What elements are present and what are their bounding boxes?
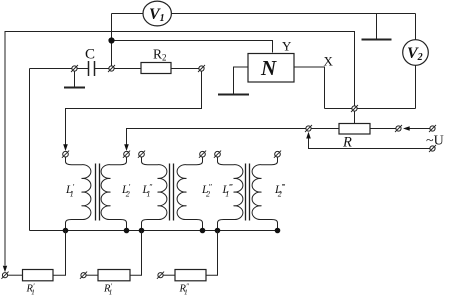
wire riser R1'' (130, 231, 142, 276)
svg-text:L‴1: L‴1 (222, 183, 233, 199)
wire V2 bottom lead (415, 65, 417, 109)
wire top bus to V1 left (112, 13, 144, 15)
potentiometer R (339, 124, 370, 135)
node junction dot (108, 37, 114, 43)
svg-text:C: C (85, 47, 95, 63)
resistor R1'' (98, 270, 130, 281)
node dots on bottom bus (63, 228, 281, 234)
coil L1' (66, 157, 91, 231)
svg-text:R′1: R′1 (26, 282, 35, 297)
terminal wiper junction (351, 105, 358, 112)
terminal R1''' left (157, 272, 164, 279)
wire V2 top lead (415, 14, 417, 41)
coil L2''' (252, 157, 277, 231)
svg-text:L″2: L″2 (201, 183, 212, 199)
arrow from ~U top (403, 126, 430, 131)
wire R left to transformer 2 terminal (127, 129, 340, 145)
terminal circles with slashes (1, 65, 436, 279)
terminal R1'' left (80, 272, 87, 279)
wire capacitor to R2 (95, 68, 142, 70)
svg-text:L‴2: L‴2 (274, 183, 285, 199)
arrow down to R1' (left edge) (3, 266, 7, 273)
wire wiper (354, 111, 356, 124)
capacitor C (89, 61, 95, 76)
wire R1' left lead (8, 274, 23, 276)
terminal capacitor right (108, 65, 115, 72)
wire ~U bottom return (309, 139, 430, 149)
terminal L2''' top (274, 151, 281, 158)
core T1 (96, 164, 100, 221)
svg-text:R: R (342, 135, 352, 151)
resistor R2 (141, 63, 171, 74)
terminal R left (305, 125, 312, 132)
wire capacitor branch down to bottom bus (29, 69, 31, 231)
terminal L2'' top (199, 151, 206, 158)
svg-text:L′1: L′1 (65, 183, 74, 199)
voltmeter V1 (143, 1, 171, 26)
svg-text:~U: ~U (426, 134, 444, 149)
wire riser R1''' (206, 231, 218, 276)
wire R right (370, 128, 397, 130)
wire R1'' left lead (86, 274, 98, 276)
core T2 (170, 164, 174, 221)
resistor R1' (23, 270, 54, 281)
svg-text:N: N (260, 56, 277, 80)
wire capacitor feed vertical (111, 14, 113, 69)
terminal L1''' top (214, 151, 221, 158)
svg-text:X: X (324, 54, 334, 69)
wire wiper junction to V2 (325, 108, 416, 110)
svg-text:Y: Y (282, 39, 292, 54)
coil L2'' (177, 157, 202, 231)
terminal L2' top (123, 151, 130, 158)
arrow to terminal L2' (124, 144, 129, 151)
voltmeter V2 (403, 40, 429, 66)
terminal L1'' top (138, 151, 145, 158)
svg-text:R′1: R′1 (103, 282, 112, 297)
wire R2 right (171, 68, 199, 70)
svg-text:R″1: R″1 (179, 282, 190, 297)
wire Y net (112, 41, 273, 53)
terminal L1' top (62, 151, 69, 158)
ground at N (218, 94, 249, 96)
terminal R2 right (198, 65, 205, 72)
terminal ~U bottom (429, 145, 436, 152)
coil L1''' (218, 157, 243, 231)
terminal capacitor left (71, 65, 78, 72)
arrow up to R left terminal (306, 132, 311, 139)
svg-text:L′2: L′2 (121, 183, 130, 199)
wire N ground lead (234, 67, 249, 94)
op box N (248, 54, 294, 83)
wire left loop: from wiper junction up, across top, down left edge (5, 32, 355, 266)
wire X output (294, 67, 325, 109)
wire V1 right to V2 corner (172, 13, 416, 15)
coil L1'' (142, 157, 167, 231)
terminal R right (395, 125, 402, 132)
svg-text:L″1: L″1 (142, 183, 153, 199)
terminal R1' left (1, 272, 8, 279)
wire capacitor row left (30, 68, 89, 70)
wire R2 output down and left to transformer 1 (66, 71, 202, 145)
resistor R1''' (175, 270, 206, 281)
ground top-right (362, 14, 392, 40)
coil L2' (101, 157, 126, 231)
wire bottom bus (30, 230, 278, 232)
wire R1''' left lead (163, 274, 175, 276)
wire riser R1' (53, 231, 66, 276)
svg-text:R2: R2 (153, 47, 167, 63)
arrow to terminal L1' (63, 144, 68, 151)
core T3 (246, 164, 250, 221)
terminal ~U top (429, 125, 436, 132)
ground at capacitor (64, 71, 85, 88)
